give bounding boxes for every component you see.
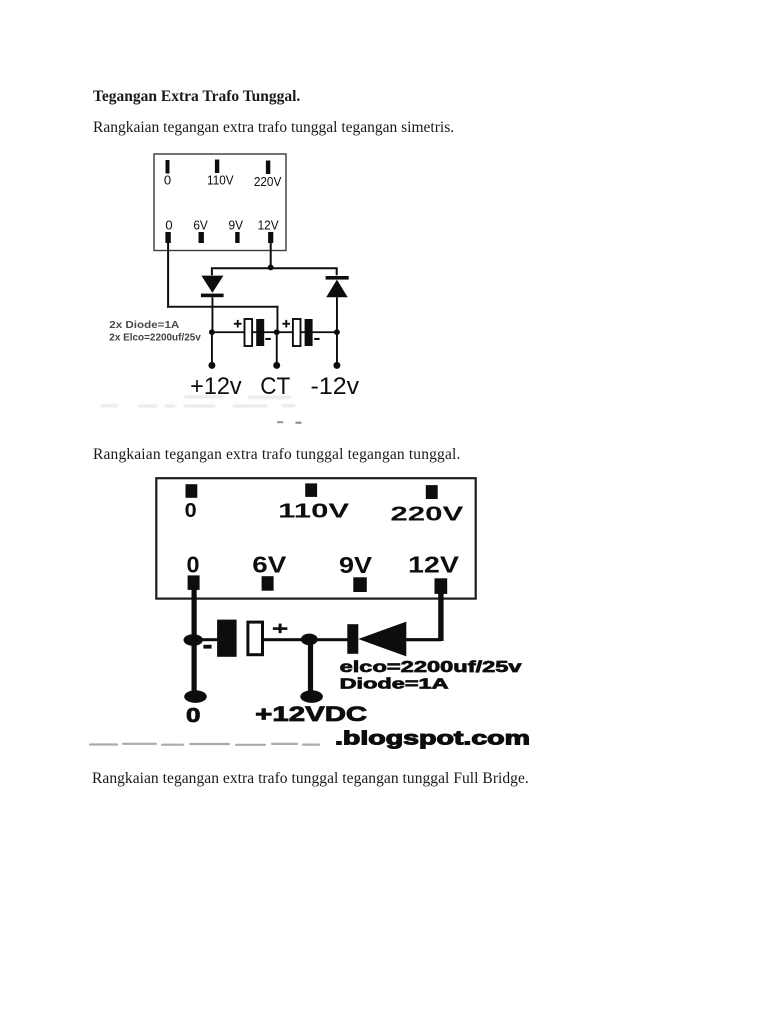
terminal node 0 — [184, 690, 207, 703]
watermark .blogspot.com — [335, 727, 530, 749]
svg-text:12V: 12V — [258, 218, 279, 233]
wire rail to CT terminal — [276, 332, 278, 365]
wire rail to +12v terminal — [211, 332, 213, 365]
svg-text:elco=2200uf/25v: elco=2200uf/25v — [340, 659, 523, 676]
capacitor C1 — [245, 319, 265, 346]
svg-text:220V: 220V — [390, 504, 464, 526]
junction rail CT — [274, 329, 280, 335]
svg-text:9V: 9V — [229, 218, 244, 233]
value label 2x Elco=2200uf/25v — [109, 332, 201, 344]
svg-text:+12VDC: +12VDC — [255, 703, 367, 726]
T2 primary pin 220V — [426, 485, 438, 499]
transformer T2 body — [156, 478, 475, 598]
svg-text:Diode=1A: Diode=1A — [340, 677, 450, 693]
T2 primary pin label 220V — [390, 504, 464, 526]
wire T2 0 tap down to 0 terminal — [192, 590, 197, 698]
T1 secondary pin label 0 — [165, 218, 172, 233]
svg-text:12V: 12V — [408, 552, 460, 578]
svg-text:0: 0 — [187, 552, 200, 578]
label -12v — [311, 373, 360, 400]
capacitor C2 minus mark — [314, 338, 319, 340]
T2 secondary pin label 12V — [408, 552, 460, 578]
capacitor C1 minus mark — [265, 338, 270, 340]
svg-text:0: 0 — [185, 500, 197, 522]
value label 2x Diode=1A — [109, 319, 179, 331]
junction rail left — [209, 329, 215, 335]
faded watermark dots — [277, 421, 301, 424]
paragraph 3 — [92, 770, 529, 788]
svg-text:2x Diode=1A: 2x Diode=1A — [109, 319, 179, 331]
wire junction down to +12VDC terminal — [308, 639, 313, 696]
capacitor C2 — [293, 319, 313, 346]
capacitor C1 plus mark — [234, 320, 242, 328]
capacitor C2 plus mark — [282, 320, 290, 328]
svg-text:0: 0 — [186, 704, 201, 727]
wire rail to -12v terminal — [336, 332, 338, 365]
diode D3 — [347, 622, 406, 657]
terminal node CT — [273, 362, 280, 369]
diode D2 — [326, 276, 349, 297]
svg-text:2x Elco=2200uf/25v: 2x Elco=2200uf/25v — [109, 332, 201, 344]
svg-text:110V: 110V — [278, 501, 350, 523]
T2 secondary pin 6V — [262, 576, 274, 591]
transformer T1 body — [154, 154, 286, 251]
T1 secondary pin 12V — [268, 232, 273, 243]
label +12v — [190, 373, 242, 400]
faded watermark smudge row 2 — [89, 743, 320, 746]
value label elco=2200uf/25v — [340, 659, 523, 676]
T2 secondary pin 12V — [435, 578, 448, 594]
T1 secondary pin 9V — [235, 232, 239, 243]
wire diode to 12V tap — [406, 592, 444, 641]
T1 primary pin 0 — [166, 160, 170, 174]
svg-text:0: 0 — [164, 173, 171, 188]
diode D1 — [201, 276, 224, 298]
T1 primary pin label 0 — [164, 173, 171, 188]
junction rail right — [334, 329, 340, 335]
terminal node -12v — [333, 362, 340, 369]
svg-text:9V: 9V — [339, 552, 373, 578]
T2 secondary pin 0 — [188, 575, 200, 590]
paragraph 2 — [93, 446, 460, 464]
wire 12V tap to bus — [270, 243, 272, 267]
svg-text:110V: 110V — [207, 173, 234, 188]
T1 secondary pin label 12V — [258, 218, 279, 233]
paragraph 1 — [93, 119, 454, 137]
wire secondary 0 to CT node — [167, 243, 278, 332]
T1 primary pin label 110V — [207, 173, 234, 188]
capacitor C3 — [217, 620, 262, 657]
junction node left — [184, 634, 203, 646]
label 0 terminal — [186, 704, 201, 727]
T2 primary pin label 0 — [185, 500, 197, 522]
faded watermark smudge row 1 — [101, 396, 295, 407]
junction bus / 12V — [268, 265, 274, 271]
T2 primary pin 0 — [186, 484, 198, 498]
T2 secondary pin label 9V — [339, 552, 373, 578]
label +12VDC — [255, 703, 367, 726]
wire D1 to rail — [212, 297, 214, 332]
svg-text:.blogspot.com: .blogspot.com — [335, 727, 530, 749]
svg-text:6V: 6V — [252, 552, 287, 578]
T2 secondary pin label 6V — [252, 552, 287, 578]
wire cap to diode — [264, 638, 348, 641]
capacitor C3 minus mark — [203, 645, 211, 649]
svg-text:6V: 6V — [193, 218, 208, 233]
svg-text:220V: 220V — [254, 174, 282, 189]
T1 primary pin 110V — [215, 160, 219, 174]
T1 primary pin label 220V — [254, 174, 282, 189]
T1 secondary pin label 9V — [229, 218, 244, 233]
svg-text:-12v: -12v — [311, 373, 360, 400]
T1 secondary pin label 6V — [193, 218, 208, 233]
wire bus between diodes — [212, 268, 337, 275]
title — [93, 88, 300, 106]
junction node +12VDC — [301, 634, 318, 646]
label CT — [260, 373, 290, 400]
value label Diode=1A — [340, 677, 450, 693]
terminal node +12VDC — [300, 690, 323, 703]
wire rail junction to cap — [193, 638, 218, 641]
capacitor rail — [212, 331, 338, 333]
terminal node +12v — [208, 362, 215, 369]
T2 secondary pin 9V — [353, 577, 367, 592]
T1 secondary pin 6V — [199, 232, 204, 243]
T1 secondary pin 0 — [165, 232, 170, 243]
wire D2 to rail — [336, 297, 338, 332]
T2 primary pin 110V — [305, 483, 317, 497]
capacitor C3 plus mark — [273, 624, 288, 634]
svg-text:CT: CT — [260, 373, 290, 400]
T1 primary pin 220V — [266, 161, 270, 175]
T2 secondary pin label 0 — [187, 552, 200, 578]
T2 primary pin label 110V — [278, 501, 350, 523]
svg-text:0: 0 — [165, 218, 172, 233]
